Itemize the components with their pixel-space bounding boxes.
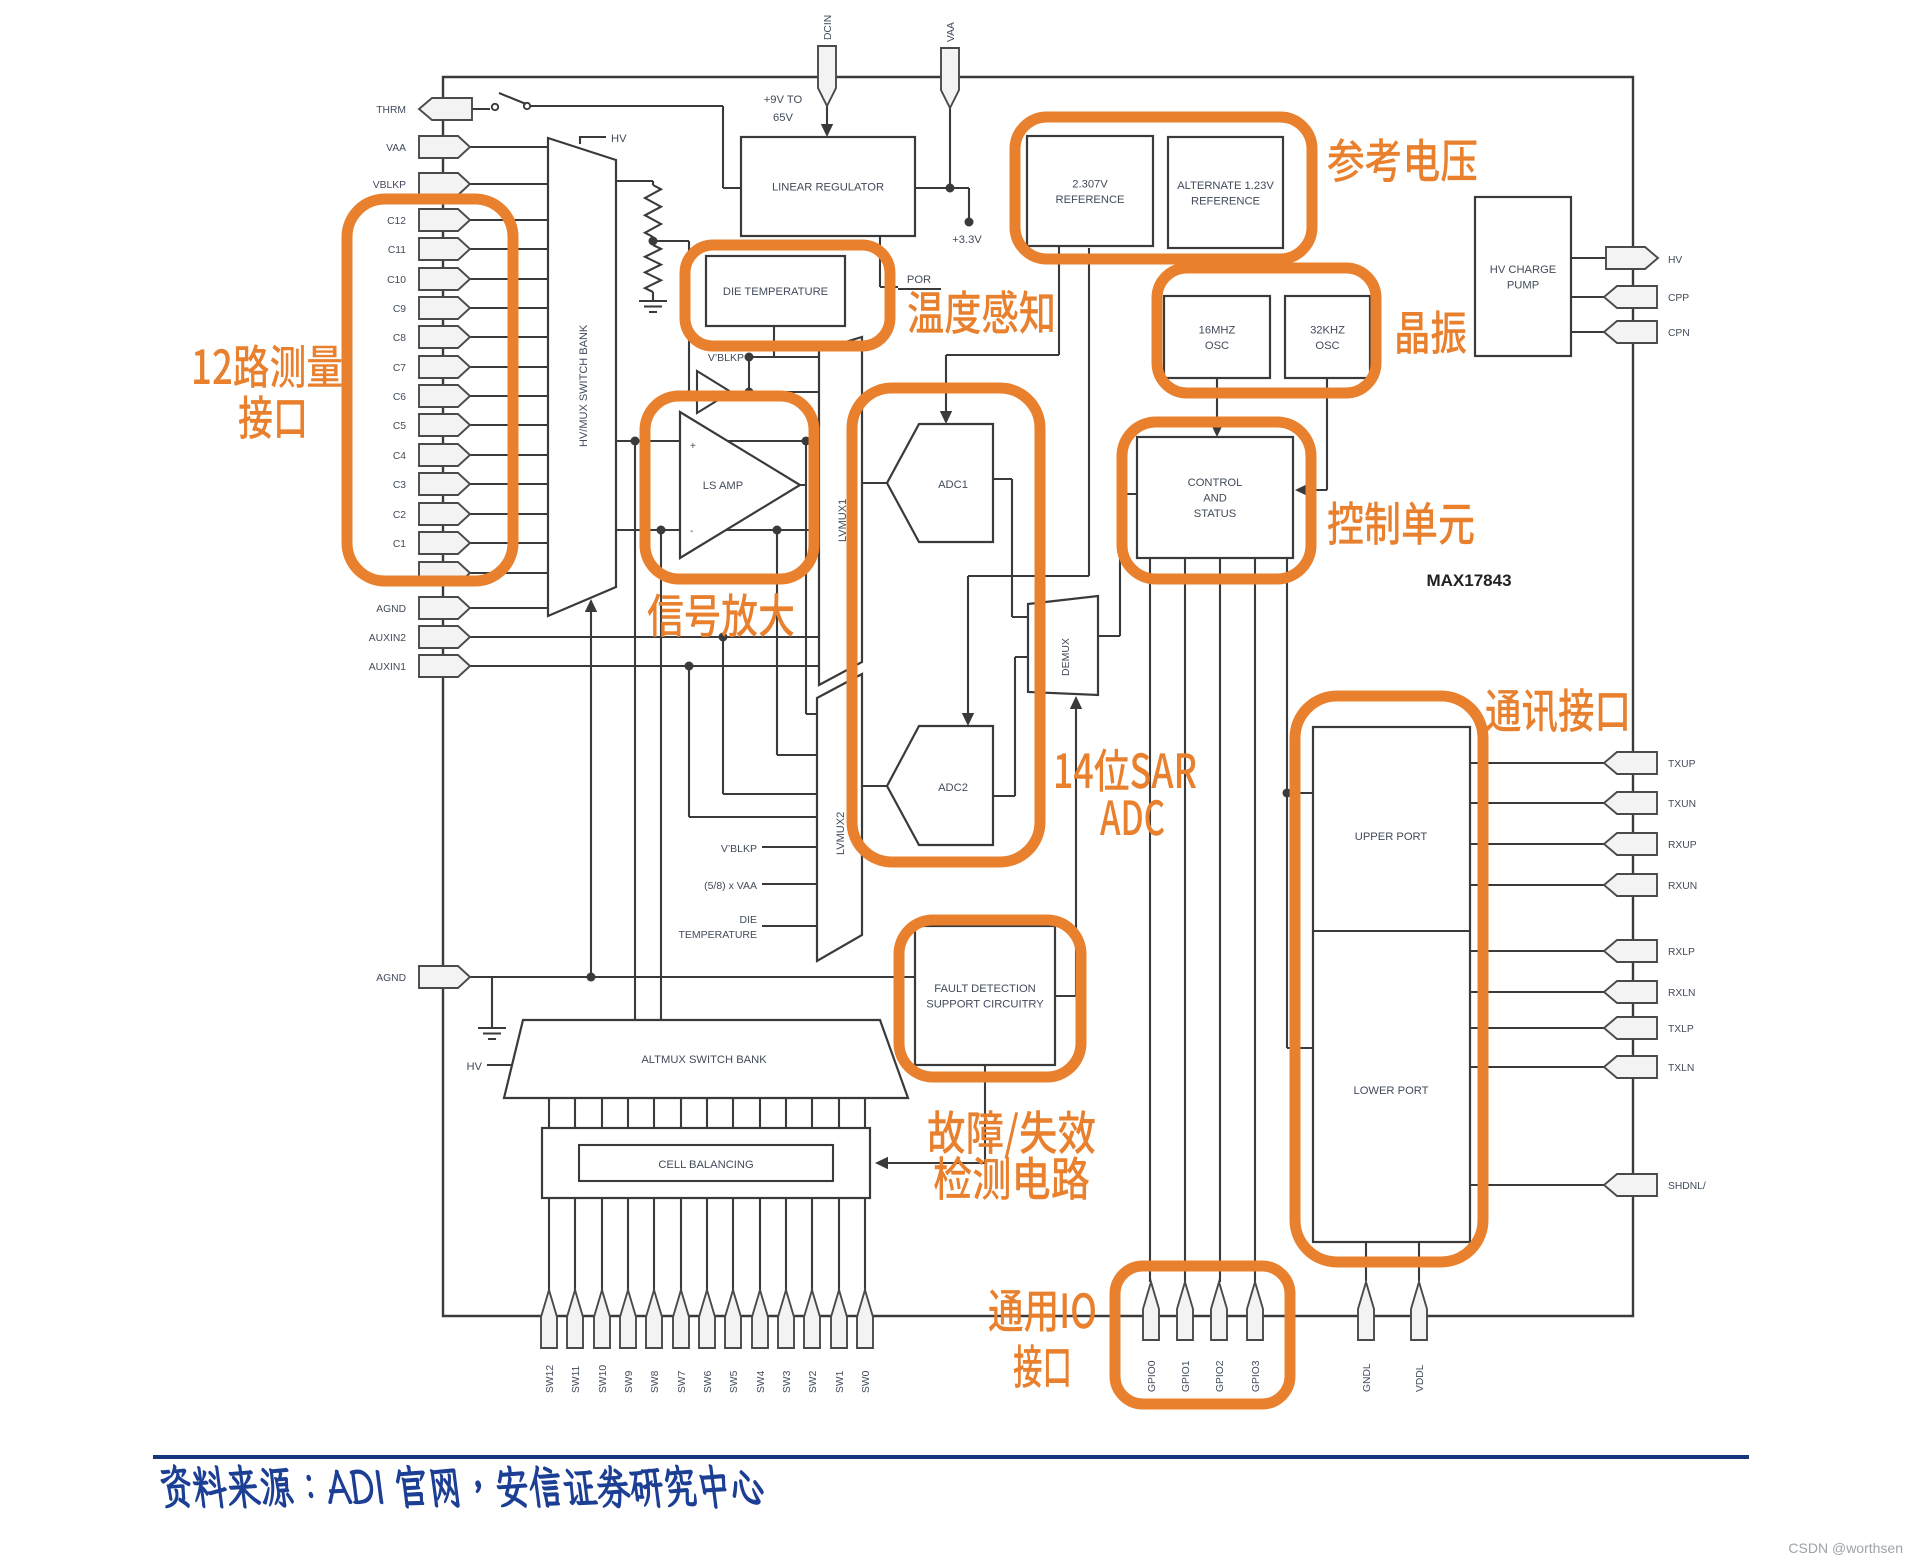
pin SW6 [699,1290,715,1348]
svg-text:SW9: SW9 [624,1370,635,1393]
highlight GPIO [1115,1266,1290,1404]
pin HV [1606,247,1658,269]
svg-text:TXLP: TXLP [1668,1024,1694,1035]
svg-text:LS AMP: LS AMP [703,480,743,492]
bus2 [1184,558,1186,1282]
w_faultb [884,1065,985,1163]
hv stub2 [487,1064,512,1066]
w_divider [1313,930,1470,932]
svg-text:LVMUX2: LVMUX2 [835,812,847,855]
svg-text:AGND: AGND [376,973,406,984]
svg-text:C3: C3 [393,480,406,491]
bus5 [1287,558,1313,1048]
drop3 [777,530,817,755]
wire buffer in [689,384,697,392]
buffer amp V'BLKP [697,371,731,413]
svg-text:AUXIN2: AUXIN2 [369,633,406,644]
pin C9 [419,297,470,319]
pin SW10 [594,1290,610,1348]
svg-text:SW4: SW4 [756,1370,767,1393]
svg-text:C5: C5 [393,421,406,432]
drop2 [660,530,662,1020]
pin C1 [419,532,470,554]
svg-text:THRM: THRM [376,105,406,116]
svg-text:SW8: SW8 [650,1370,661,1393]
svg-text:CSDN @worthsen: CSDN @worthsen [1788,1540,1903,1556]
highlight oscillators [1157,268,1376,393]
pin CPN [1604,321,1657,343]
hv stub [580,137,606,144]
svg-text:ADC2: ADC2 [938,782,968,794]
svg-text:REFERENCE: REFERENCE [1056,194,1125,206]
pin CPP [1604,286,1657,308]
svg-text:DEMUX: DEMUX [1060,638,1072,676]
svg-text:SW7: SW7 [677,1370,688,1393]
pin VBLKP [419,173,470,195]
svg-text:C6: C6 [393,392,406,403]
wire res mid tap [653,237,689,384]
w_adc2in [862,785,887,787]
resistor R upper [645,185,661,237]
svg-text:HV CHARGE: HV CHARGE [1490,264,1557,276]
svg-text:VDDL: VDDL [1415,1364,1426,1392]
svg-text:VAA: VAA [946,22,957,42]
wire DCIN to linear regulator with arrow [826,106,828,128]
svg-text:V’BLKP: V’BLKP [708,352,744,364]
pin SW12 [541,1290,557,1348]
w_osc1 [1216,378,1218,428]
pin RXLP [1604,940,1657,962]
CONTROL AND STATUS box [1137,437,1293,558]
svg-text:SUPPORT CIRCUITRY: SUPPORT CIRCUITRY [926,998,1044,1010]
svg-text:DCIN: DCIN [823,15,834,40]
pin TXLN [1604,1056,1657,1078]
svg-text:VBLKP: VBLKP [373,180,406,191]
wire auxin2 [470,637,819,794]
highlight control unit [1122,422,1311,579]
svg-text:C12: C12 [387,216,406,227]
pin GPIO2 [1211,1282,1227,1340]
resistor R lower [645,245,661,292]
adc ADC1 [887,424,993,542]
svg-text:+3.3V: +3.3V [952,234,982,246]
32KHZ OSC box [1285,296,1370,378]
svg-text:C11: C11 [388,245,406,256]
svg-text:ALTMUX SWITCH BANK: ALTMUX SWITCH BANK [641,1054,767,1066]
pin SW7 [673,1290,689,1348]
pin C7 [419,356,470,378]
drop1 [634,441,636,1020]
wire VBLKP tap [748,357,750,392]
svg-text:CELL BALANCING: CELL BALANCING [658,1159,753,1171]
svg-text:SW3: SW3 [782,1370,793,1393]
pin C3 [419,473,470,495]
mux LVMUX1 [819,337,862,685]
svg-text:AUXIN1: AUXIN1 [369,662,406,673]
w_faultup [1075,704,1077,996]
pin C4 [419,444,470,466]
pin SW4 [752,1290,768,1348]
svg-text:TXUN: TXUN [1668,799,1696,810]
svg-text:MAX17843: MAX17843 [1426,571,1511,590]
svg-text:LOWER PORT: LOWER PORT [1353,1085,1428,1097]
pin SW5 [725,1290,741,1348]
svg-text:HV: HV [611,133,627,145]
svg-text:HV: HV [466,1061,482,1073]
chip outer border [443,77,1633,1316]
pin RXUP [1604,833,1657,855]
svg-text:SW0: SW0 [861,1370,872,1393]
svg-text:PUMP: PUMP [1507,279,1539,291]
pin C11 [419,238,470,260]
svg-text:SHDNL/: SHDNL/ [1668,1181,1706,1192]
svg-text:SW6: SW6 [703,1370,714,1393]
pin AGND [419,597,470,619]
svg-text:C8: C8 [393,333,406,344]
bus1 [1149,558,1151,1282]
svg-text:16MHZ: 16MHZ [1199,324,1236,336]
svg-text:C7: C7 [393,363,406,374]
svg-text:C4: C4 [393,451,406,462]
w_adc1out [993,479,1028,617]
stub3 [762,925,817,927]
ground below resistor [639,301,667,312]
label 接口 [239,395,304,439]
svg-text:RXLN: RXLN [1668,988,1695,999]
svg-text:TXUP: TXUP [1668,759,1696,770]
label 14位SAR [1056,748,1196,791]
CELL BALANCING inner box [579,1145,833,1181]
wire res top [616,181,653,185]
w_adc1in [862,482,887,484]
pin VAA top [941,48,959,108]
stub2 [762,883,817,885]
svg-text:CPP: CPP [1668,293,1689,304]
label 12路测量 [194,344,341,388]
svg-text:SW10: SW10 [598,1365,609,1393]
pin GPIO0 [1143,1282,1159,1340]
svg-text:AND: AND [1203,493,1227,505]
svg-text:+9V TO: +9V TO [764,94,803,106]
pin THRM [419,98,472,120]
label 通讯接口 [1486,688,1627,732]
label 控制单元 [1328,501,1474,545]
2.307V REFERENCE box [1027,136,1153,246]
svg-text:GPIO0: GPIO0 [1147,1360,1158,1392]
label ADC [1100,800,1164,836]
pin GNDL [1358,1282,1374,1340]
label 参考电压 [1328,138,1477,182]
CELL BALANCING outer box [542,1128,870,1198]
svg-text:HV/MUX SWITCH BANK: HV/MUX SWITCH BANK [578,324,590,447]
svg-text:POR: POR [907,274,931,286]
ALTERNATE 1.23V REFERENCE box [1168,137,1283,248]
svg-text:2.307V: 2.307V [1072,178,1108,190]
svg-text:TEMPERATURE: TEMPERATURE [678,929,757,941]
stub1 [762,846,817,848]
svg-text:CONTROL: CONTROL [1188,477,1243,489]
pin C6 [419,385,470,407]
highlight SAR ADC [852,388,1040,862]
adc ADC2 [887,726,993,845]
pin C8 [419,326,470,348]
pin SW2 [804,1290,820,1348]
pin SW0 [857,1290,873,1348]
svg-text:REFERENCE: REFERENCE [1191,195,1260,207]
pin AUXIN2 [419,626,470,648]
svg-text:OSC: OSC [1205,340,1229,352]
pin SW8 [646,1290,662,1348]
svg-text:V’BLKP: V’BLKP [721,843,757,855]
pin DCIN [818,46,836,106]
svg-text:32KHZ: 32KHZ [1310,324,1345,336]
wires CELL BALANCING to SW pins [549,1198,865,1292]
svg-text:AGND: AGND [376,604,406,615]
wires ALTMUX to CELL BALANCING [549,1098,865,1128]
label 通用IO [989,1289,1095,1332]
svg-text:SW2: SW2 [808,1370,819,1393]
pin C10 [419,268,470,290]
svg-text:GPIO3: GPIO3 [1251,1360,1262,1392]
wire THRM switch [470,106,741,188]
w_faultr [1055,995,1076,997]
pin C2 [419,503,470,525]
pin SW9 [620,1290,636,1348]
label 检测电路 [934,1156,1089,1200]
HV CHARGE PUMP box [1475,197,1571,356]
pin SW1 [831,1290,847,1348]
svg-text:C10: C10 [387,275,406,286]
pin VAA [419,136,470,158]
svg-text:DIE: DIE [739,914,757,926]
16MHZ OSC box [1164,296,1270,378]
svg-text:+: + [690,441,696,452]
pin GPIO1 [1177,1282,1193,1340]
svg-text:-: - [690,526,693,537]
w_gndl [1366,1242,1419,1281]
svg-text:RXLP: RXLP [1668,947,1695,958]
svg-text:ALTERNATE 1.23V: ALTERNATE 1.23V [1177,180,1274,192]
label 信号放大 [648,593,794,637]
svg-text:DIE TEMPERATURE: DIE TEMPERATURE [723,286,828,298]
svg-text:HV: HV [1668,255,1682,266]
highlight comm ports [1295,696,1483,1262]
UPPER PORT / LOWER PORT box [1313,727,1470,1242]
wire lsamp plus [616,440,819,442]
pin C0 [419,562,470,584]
wire por [880,236,941,289]
highlight 12-channel measurement [347,199,513,581]
wires port to right pins [1470,763,1604,1185]
svg-text:(5/8) x VAA: (5/8) x VAA [704,880,757,892]
HV/MUX SWITCH BANK [548,138,616,616]
label 晶振 [1397,310,1466,354]
svg-text:GPIO2: GPIO2 [1215,1360,1226,1392]
svg-text:SW1: SW1 [835,1370,846,1393]
svg-text:SW12: SW12 [545,1365,556,1393]
svg-text:GNDL: GNDL [1362,1363,1373,1392]
w_adc2out [993,657,1028,796]
w_demuxout [1098,494,1137,636]
highlight reference [1015,117,1312,259]
svg-text:OSC: OSC [1315,340,1339,352]
w_ref1 [946,246,1059,415]
bus3 [1219,558,1221,1282]
svg-text:UPPER PORT: UPPER PORT [1355,831,1428,843]
wire dietemp [748,326,819,357]
ALTMUX SWITCH BANK [504,1020,908,1098]
w_gnd2 [491,977,493,1028]
wire VAA vertical [915,107,969,220]
svg-text:RXUP: RXUP [1668,840,1697,851]
pin SW11 [567,1290,583,1348]
pin AGND [419,966,470,988]
wire lsamp minus [616,529,819,531]
pin TXUN [1604,792,1657,814]
highlight fault detection [899,920,1081,1077]
pin TXUP [1604,752,1657,774]
highlight die temperature [685,245,890,346]
LINEAR REGULATOR box [741,137,915,236]
pin AUXIN1 [419,655,470,677]
svg-text:TXLN: TXLN [1668,1063,1694,1074]
svg-text:ADC1: ADC1 [938,479,968,491]
wires C12..C0, VAA, VBLKP, AGND to HV/MUX switch bank [470,147,548,608]
pin SHDNL/ [1604,1174,1657,1196]
label 温度感知 [908,290,1052,334]
svg-text:GPIO1: GPIO1 [1181,1360,1192,1392]
label 故障/失效 [928,1110,1094,1158]
pin RXLN [1604,981,1657,1003]
svg-text:RXUN: RXUN [1668,881,1697,892]
w_cp [1571,258,1606,332]
w_osc2 [1304,378,1327,490]
bus4 [1254,558,1256,1282]
wire auxin1 [470,666,819,817]
svg-text:VAA: VAA [386,143,406,154]
svg-text:STATUS: STATUS [1194,508,1236,520]
label 接口 2 [1014,1344,1069,1388]
w_agndup [590,608,592,977]
FAULT DETECTION SUPPORT CIRCUITRY box [915,926,1055,1065]
w_agnd2 [470,976,915,978]
w_ref2 [968,248,1089,717]
svg-text:C1: C1 [393,539,406,550]
op-amp LS AMP [680,412,800,558]
pin C5 [419,414,470,436]
highlight LS AMP [645,396,814,579]
svg-text:SW11: SW11 [571,1365,582,1393]
pin RXUN [1604,874,1657,896]
pin VDDL [1411,1282,1427,1340]
svg-text:LINEAR REGULATOR: LINEAR REGULATOR [772,182,884,194]
DIE TEMPERATURE box [706,256,845,326]
pin GPIO3 [1247,1282,1263,1340]
mux LVMUX2 [817,674,862,961]
svg-text:C2: C2 [393,510,406,521]
demux DEMUX [1028,596,1098,695]
svg-text:SW5: SW5 [729,1370,740,1393]
svg-text:C9: C9 [393,304,406,315]
source divider line [153,1455,1749,1459]
pin SW3 [778,1290,794,1348]
svg-text:CPN: CPN [1668,328,1690,339]
wire lsamp out [800,441,817,714]
pin TXLP [1604,1017,1657,1039]
wire buffer out [731,391,819,393]
source text 资料来源 [161,1465,763,1508]
pin C12 [419,209,470,231]
svg-text:FAULT DETECTION: FAULT DETECTION [934,983,1036,995]
svg-text:65V: 65V [773,112,793,124]
